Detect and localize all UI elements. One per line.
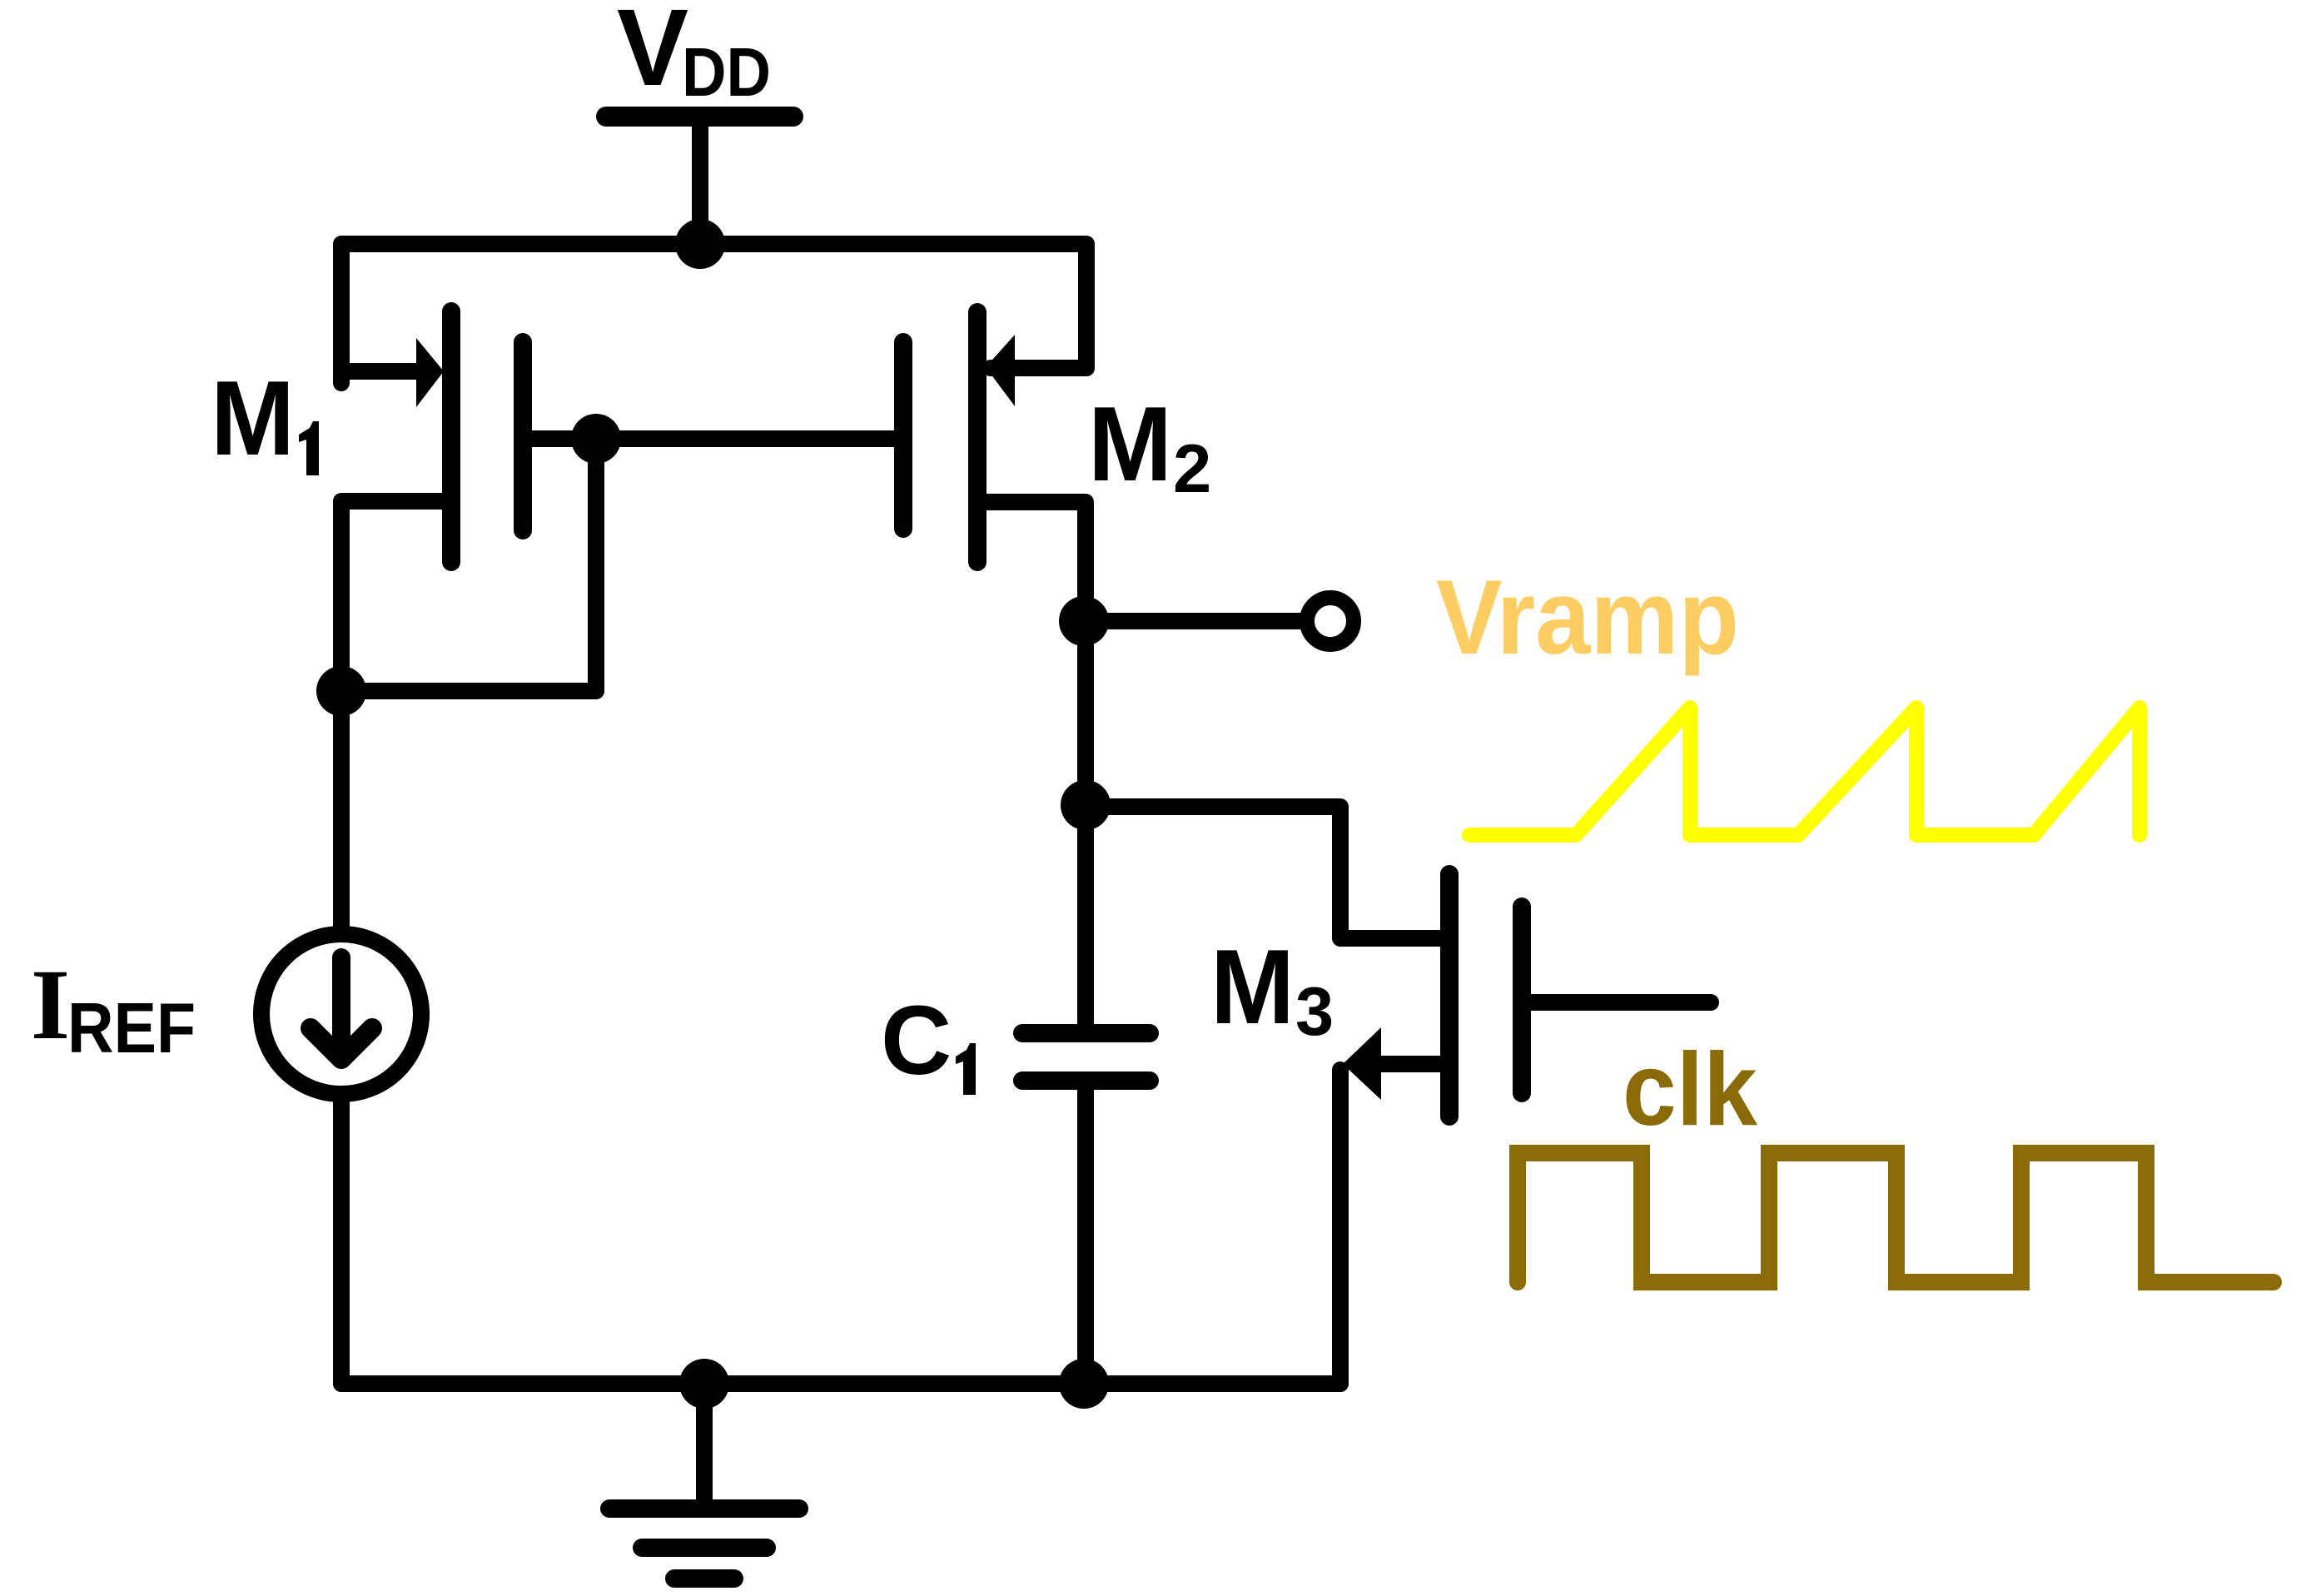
wire diode connection M1 [341,439,596,691]
transistor M2 channel bar [968,312,986,562]
current source IREF circle [261,934,421,1094]
waveform clk square wave [1518,1153,2274,1282]
wire M3 gate lead clk [1530,994,1711,1011]
wire M1-M2 gate net [531,430,894,447]
ground bar 2 [642,1539,767,1557]
svg-text:V: V [617,0,688,108]
wire VDD stub [692,125,708,244]
node dot M1 drain/diode [316,666,366,716]
svg-text:I: I [31,949,70,1061]
svg-text:REF: REF [67,989,196,1068]
svg-text:M: M [1210,927,1295,1046]
wire M3 drain lead [1086,807,1443,938]
current source IREF arrow shaft [332,957,350,1056]
node dot C1 bottom [1059,1359,1109,1409]
wire M1 source lead [341,363,420,380]
node dot ground rail [679,1359,729,1409]
svg-text:3: 3 [1295,972,1334,1050]
terminal Vramp open circle [1307,598,1354,644]
wire C1 bottom lead [1077,1088,1094,1384]
node dot VDD/top rail [675,219,725,269]
svg-text:DD: DD [682,33,771,111]
ground bar 1 [609,1499,799,1518]
current source IREF arrowhead [311,1028,372,1059]
ground stub [696,1384,713,1507]
capacitor C1 top plate [1022,1024,1150,1042]
wire M2 source lead [991,360,1086,376]
wire C1 top lead [1077,805,1094,1026]
waveform Vramp sawtooth [1469,708,2139,835]
arrowhead M3 source [1343,1027,1381,1100]
svg-text:Vramp: Vramp [1436,558,1739,676]
wire M3 source down [1332,1070,1349,1384]
wire top rail [341,244,1086,383]
node dot Vramp [1059,596,1109,646]
svg-text:M: M [211,359,295,477]
wire IREF bottom lead [333,1102,350,1384]
node dot gate net [571,414,621,464]
ground bar 3 [674,1569,734,1588]
svg-text:2: 2 [1173,430,1211,507]
svg-text:clk: clk [1623,1032,1758,1147]
transistor M2 gate bar [894,342,912,529]
capacitor C1 bottom plate [1022,1071,1150,1090]
transistor M3 channel bar [1440,874,1459,1116]
wire Vramp output lead [1086,613,1300,629]
wire M1 drain lead [341,501,444,927]
svg-text:C: C [881,986,952,1096]
wire M2 drain lead [986,502,1086,621]
transistor M1 gate bar [514,342,532,530]
node dot C1/M3 drain [1061,780,1111,830]
wire M3 source lead [1382,1056,1443,1072]
wire node down to C1/M3 [1077,621,1094,805]
transistor M1 channel bar [442,311,460,562]
wire bottom rail [341,1375,1340,1392]
svg-text:M: M [1088,385,1172,503]
arrowhead M2 source [986,335,1015,406]
arrowhead M1 source [416,338,444,407]
transistor M3 gate bar [1513,907,1531,1093]
power VDD bar [606,107,793,127]
